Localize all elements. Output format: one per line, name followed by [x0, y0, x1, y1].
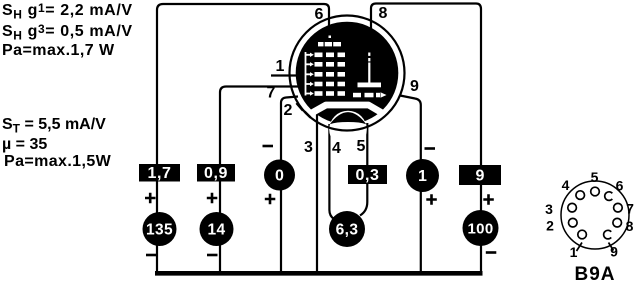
polarity + col3 [265, 194, 276, 205]
svg-text:Pa=max.1,7 W: Pa=max.1,7 W [2, 42, 115, 59]
svg-text:SH g3= 0,5 mA/V: SH g3= 0,5 mA/V [2, 22, 133, 43]
wire: bottom common bus [155, 271, 483, 276]
svg-text:0,9: 0,9 [204, 165, 228, 182]
current box Ia=1,7mA (pin 6 anode) [139, 164, 180, 182]
svg-text:9: 9 [610, 244, 618, 260]
voltage circle 100V (pin 8) [463, 210, 499, 246]
svg-text:6,3: 6,3 [336, 222, 359, 239]
svg-text:B9A: B9A [574, 264, 615, 283]
svg-text:Pa=max.1,5W: Pa=max.1,5W [4, 153, 112, 170]
svg-text:7: 7 [626, 201, 634, 217]
polarity - col7 [486, 251, 497, 254]
svg-text:14: 14 [207, 222, 225, 239]
socket index tick right [609, 243, 614, 251]
svg-text:1: 1 [276, 58, 285, 75]
svg-text:1: 1 [418, 168, 427, 185]
heater arch (pins 4,5) [330, 112, 366, 124]
grid connection bus (pins 1,7) with arrows [305, 52, 307, 96]
wire: pin 7 lead left then down through 0,9 box and 14 circle [220, 87, 299, 272]
svg-text:3: 3 [545, 201, 553, 217]
current box Ig=0,9mA (pin 7) [197, 164, 235, 182]
svg-text:7: 7 [267, 85, 276, 102]
heptode anode bar (pin 6) [318, 42, 324, 46]
svg-text:8: 8 [379, 5, 388, 22]
svg-text:SH g1= 2,2 mA/V: SH g1= 2,2 mA/V [2, 1, 133, 22]
polarity - col1 [146, 254, 157, 257]
svg-text:6: 6 [315, 6, 324, 23]
B9A base diagram [545, 169, 634, 283]
wire: pin 5 lead down through 0,3 box to 6,3V circle [360, 123, 367, 216]
voltage circle 1V (pin 9) [406, 159, 439, 192]
socket index tick left [577, 243, 583, 252]
wire: pin 8 lead up, right along top, down right rail through I=9 box and 100V circle [371, 4, 481, 273]
tube V1 envelope (triode-heptode) [290, 16, 405, 149]
svg-text:8: 8 [626, 218, 634, 234]
svg-text:6: 6 [616, 178, 624, 194]
triode anode lead (pin 8, dotted then solid) [368, 53, 370, 56]
inner black electrode field [296, 22, 399, 125]
svg-text:µ = 35: µ = 35 [2, 136, 47, 153]
svg-text:1,7: 1,7 [147, 165, 171, 182]
svg-text:2: 2 [546, 218, 554, 234]
polarity - col6 [425, 147, 436, 150]
voltage circle 0V (pin 2) [264, 160, 295, 191]
wire: pin 2 lead left then down through 0 circle [281, 97, 298, 272]
polarity - col3 [263, 145, 274, 148]
polarity + col2 [207, 193, 218, 204]
svg-text:0,3: 0,3 [355, 167, 379, 184]
socket pin 3 hole [568, 203, 577, 212]
svg-text:9: 9 [476, 168, 485, 185]
polarity + col1 [145, 193, 156, 204]
socket pin 6 hole (C) [605, 192, 613, 201]
socket outline [561, 181, 629, 249]
socket pin 5 hole [591, 187, 600, 196]
socket pin 2 hole [569, 218, 578, 227]
svg-text:9: 9 [410, 78, 419, 95]
cathode (pin 3) [312, 105, 381, 113]
socket pin 4 hole [576, 191, 585, 200]
wire: pin 3 lead straight down to bottom bus [316, 108, 318, 271]
svg-text:2: 2 [284, 102, 293, 119]
wire: pin 6 lead up, left along top, down left rail to bottom bus [157, 4, 329, 272]
svg-text:135: 135 [146, 222, 173, 239]
triode grid (dashed, to pin 9) [353, 93, 361, 98]
wire: pin 9 lead right then down through 1V circle to bottom bus [400, 96, 421, 272]
voltage circle 14V (pin 7) [200, 212, 234, 246]
socket pin 8 hole [613, 218, 622, 227]
polarity + col6 [426, 194, 437, 205]
svg-text:3: 3 [304, 139, 313, 156]
socket pin 7 hole [614, 203, 623, 212]
current box If=0,3A (pin 5 heater) [348, 165, 387, 184]
triode anode bar [358, 83, 382, 88]
wire: pin 1 stub [271, 74, 298, 76]
wire: pin 4 lead down to 6,3V circle [329, 124, 334, 219]
white heater cavity [329, 111, 367, 149]
polarity + col7 [483, 194, 494, 205]
heptode grid rows g1-g5 (dashed) [315, 53, 346, 96]
polarity - col2 [207, 254, 218, 257]
voltage circle 6,3V heater [329, 211, 365, 247]
current box Ia=9mA (pin 8 anode) [459, 165, 501, 185]
envelope outline [290, 16, 405, 131]
svg-text:5: 5 [357, 138, 366, 155]
svg-text:4: 4 [332, 140, 341, 157]
socket pin 1 hole [578, 230, 587, 239]
svg-text:1: 1 [570, 244, 578, 260]
svg-text:0: 0 [275, 168, 284, 185]
socket pin 9 hole (C) [604, 230, 612, 239]
svg-text:4: 4 [562, 177, 570, 193]
svg-text:5: 5 [591, 169, 599, 185]
svg-text:100: 100 [468, 221, 494, 238]
voltage circle 135V (pin 6) [143, 212, 177, 246]
envelope inner edge dashes lower-left [297, 103, 311, 118]
